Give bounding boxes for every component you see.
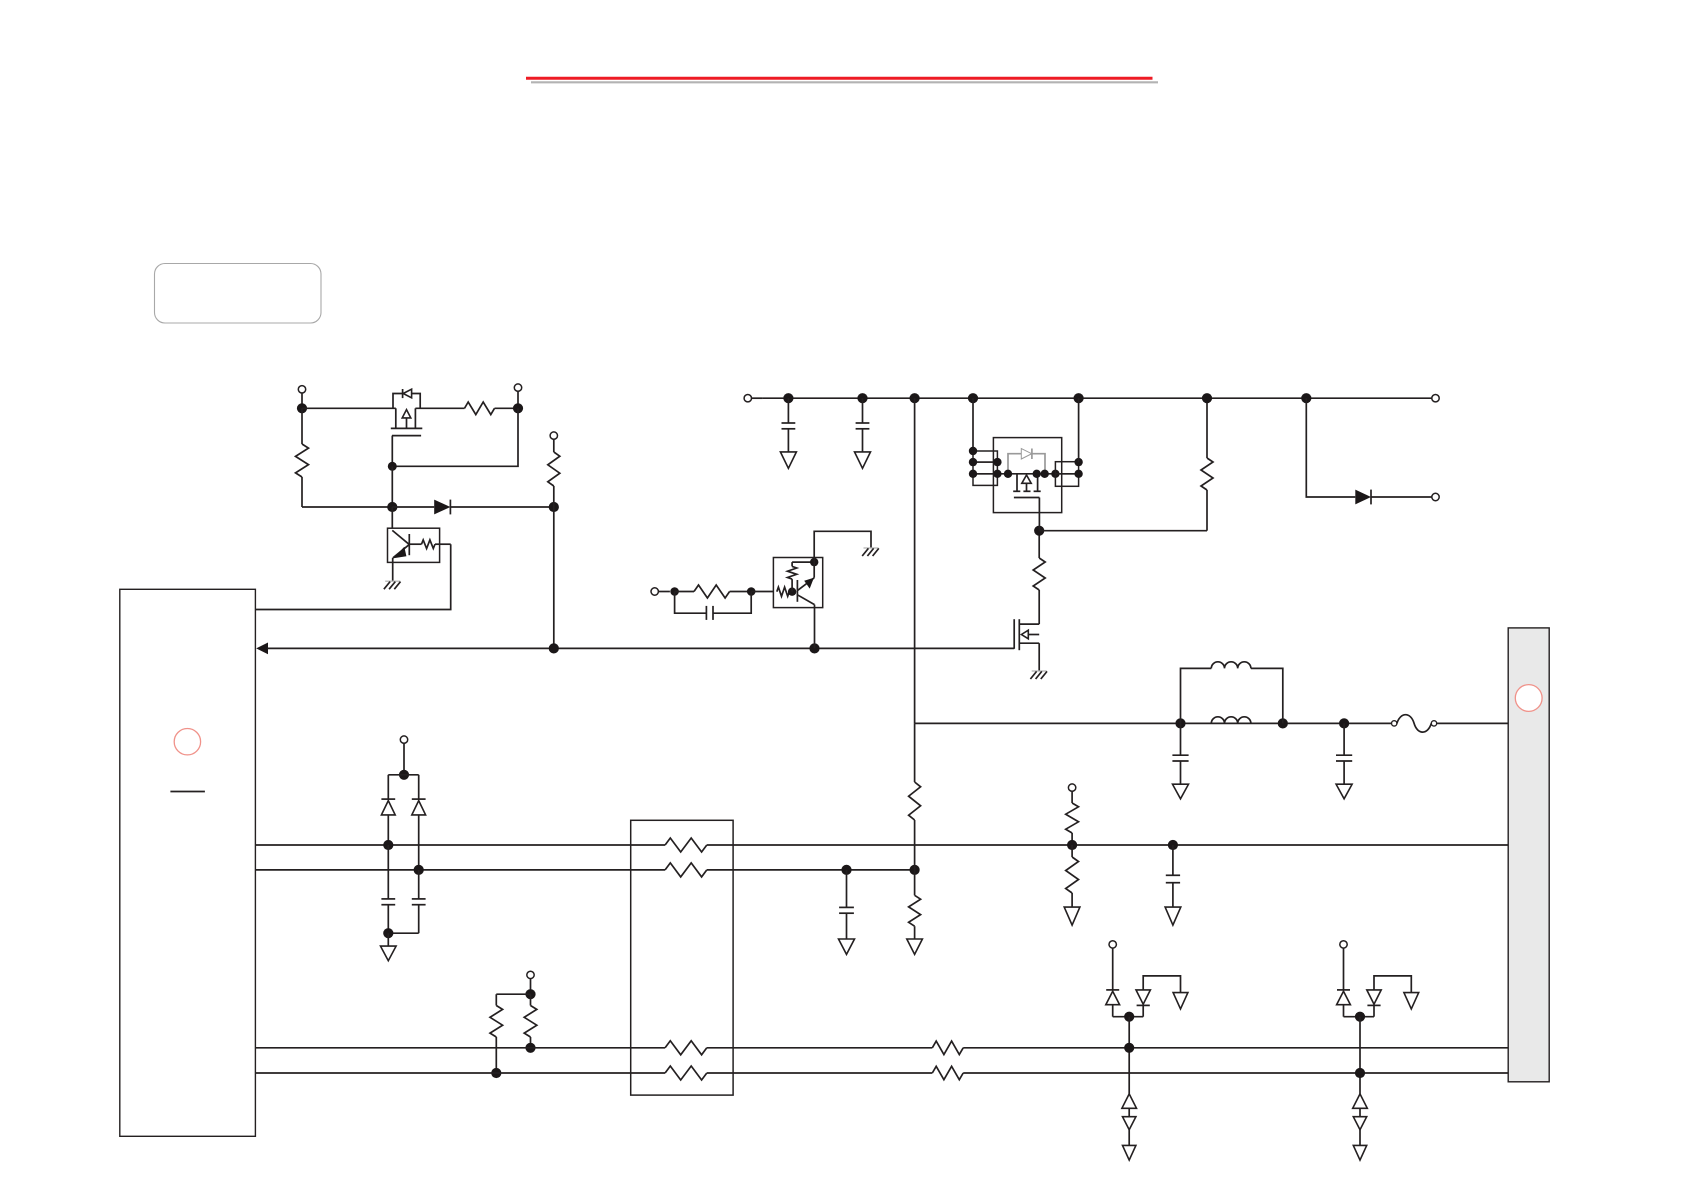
resistor R6 <box>914 723 916 782</box>
connector J1 body <box>120 589 256 1136</box>
U2 collector pin wire <box>814 531 871 578</box>
node R11 <box>491 1068 501 1078</box>
U2 pullup resistor <box>791 579 793 592</box>
TVS Z2 down triangle <box>1353 1117 1366 1130</box>
ground D-group <box>387 933 389 946</box>
U3 pin nodes right <box>1074 458 1082 466</box>
diode pair split <box>388 774 418 776</box>
U1 base wire to connector <box>255 544 450 609</box>
ground Z2 arrow <box>1353 1145 1366 1160</box>
pin Z2 <box>1340 941 1347 948</box>
resistor R3 <box>550 432 557 439</box>
capacitor C2 <box>862 398 864 423</box>
connector J2 body <box>1508 628 1549 1082</box>
node V3 <box>910 393 920 403</box>
connector J1 red circle <box>174 729 200 755</box>
U3 mosfet stubs <box>1016 474 1018 492</box>
ground G2 <box>864 547 879 549</box>
node P3b <box>747 587 756 596</box>
TVS Z1 up triangle <box>1122 1094 1137 1108</box>
wire node B down <box>553 507 555 648</box>
resistor R1 <box>415 407 464 409</box>
U3 pin box 2 <box>973 462 997 474</box>
U3 left pin wire <box>972 398 974 451</box>
terminal T2 <box>1432 493 1439 500</box>
bus S3 wire <box>255 1047 665 1049</box>
node C <box>1034 526 1044 536</box>
pin P1 <box>298 386 305 393</box>
U2 transistor bar <box>796 580 798 602</box>
connector J1 key line <box>170 791 205 793</box>
node FB-E <box>809 643 819 653</box>
resistor R10 <box>675 591 694 593</box>
optocoupler U1 box <box>388 528 440 562</box>
node W1 <box>1175 718 1185 728</box>
U3 center line <box>973 473 1079 475</box>
ground C3 <box>1173 784 1189 799</box>
U3 right pin wire <box>1078 398 1080 462</box>
ground Z1 arrow <box>1123 1145 1136 1160</box>
capacitor C5 <box>1172 845 1174 875</box>
node P3 <box>670 587 679 596</box>
node S1c <box>1168 840 1178 850</box>
U2 collector <box>798 578 815 591</box>
node V1 <box>783 393 793 403</box>
node S2b <box>841 865 851 875</box>
U2 collector node <box>810 558 818 566</box>
top bus wire <box>763 397 1432 399</box>
TVS Z2 link <box>1359 1108 1361 1116</box>
power bus wire <box>915 722 1392 724</box>
U3 body diode <box>1008 449 1045 474</box>
node Z2 <box>1355 1012 1365 1022</box>
resistor R2 <box>301 408 303 444</box>
TVS Z2 link 2 <box>1359 1130 1361 1146</box>
optocoupler U2 box <box>773 558 822 608</box>
U3 gate wire <box>1038 498 1040 531</box>
U3 pin box 5 <box>1055 474 1078 487</box>
transistor Q1 p-MOSFET <box>395 408 397 428</box>
U3 mosfet arrow <box>1022 475 1031 483</box>
capacitor C8 <box>846 870 848 908</box>
U3 channel bar <box>1013 490 1020 492</box>
title red underline <box>526 77 1153 80</box>
bus S1 wire <box>255 844 665 846</box>
ground C8 <box>839 939 855 954</box>
bus S2 wire <box>255 869 665 871</box>
Q1 gate wire <box>391 436 393 467</box>
ground Z2b <box>1404 993 1419 1009</box>
U1 emitter ground wire <box>392 558 394 581</box>
node P1 <box>297 403 307 413</box>
node V2 <box>857 393 867 403</box>
node V7 <box>1301 393 1311 403</box>
node V5 <box>1074 393 1084 403</box>
node R12 <box>525 1043 535 1053</box>
ground C5 <box>1165 907 1181 925</box>
pin P6 <box>527 971 534 978</box>
ground R9 <box>1064 907 1080 925</box>
wire to U2 <box>751 591 773 593</box>
bus S4 wire <box>255 1072 665 1074</box>
ground C2 <box>855 452 871 468</box>
ground G1 <box>385 580 400 582</box>
fuse F1 <box>1392 721 1397 726</box>
U1 base resistor <box>409 543 421 545</box>
node W3 <box>1339 718 1349 728</box>
node P2 <box>513 403 523 413</box>
resistor R8 with pin <box>1068 784 1075 791</box>
diode D3 <box>387 775 389 799</box>
diode D2 <box>1306 398 1355 497</box>
wire Z2 to bus <box>1359 1017 1361 1094</box>
filter box T1 <box>631 820 733 1095</box>
resistor R9 <box>1071 845 1073 857</box>
node FB-B <box>549 643 559 653</box>
node B <box>549 502 559 512</box>
diode D1 <box>392 506 434 508</box>
capacitor C3 <box>1180 723 1182 755</box>
capacitor C7 <box>418 870 420 899</box>
diode Z2b <box>1367 990 1381 1004</box>
capacitor C10 <box>675 592 707 614</box>
TVS Z1 link 2 <box>1128 1130 1130 1146</box>
Q3 source ground wire <box>1038 643 1040 670</box>
resistor R4 <box>1033 558 1045 590</box>
U3 body box <box>993 438 1061 513</box>
U1 emitter <box>393 545 409 558</box>
title underline shadow <box>531 81 1158 83</box>
node A <box>387 502 397 512</box>
U2 emitter <box>797 595 814 605</box>
U3 gate bar <box>1014 497 1040 499</box>
diode Z1b <box>1136 990 1150 1004</box>
wire P1 to Q1 <box>302 407 396 409</box>
resistor R5 <box>1206 490 1208 531</box>
U2 base node <box>788 588 796 596</box>
node Z1 <box>1124 1012 1134 1022</box>
pin P4 <box>744 395 751 402</box>
node V4 <box>968 393 978 403</box>
U3 inner nodes <box>1004 470 1012 478</box>
node W2 <box>1278 718 1288 728</box>
inductor L2 <box>1211 717 1251 724</box>
pin P3 <box>651 588 658 595</box>
U2 base resistor <box>777 587 790 596</box>
ground C4 <box>1336 784 1352 799</box>
ground G3 <box>1032 670 1047 672</box>
U3 pin box 3 <box>973 474 997 486</box>
node Z2 bus <box>1355 1068 1365 1078</box>
node S1a <box>383 840 393 850</box>
U1 transistor bar <box>408 534 410 555</box>
pin P2 <box>514 384 521 391</box>
diode Z2a <box>1337 989 1350 991</box>
capacitor C6 <box>387 845 389 899</box>
transistor Q3 n-MOSFET <box>1013 619 1015 649</box>
node P6 <box>525 989 535 999</box>
TVS Z1 link <box>1128 1108 1130 1116</box>
node S1b <box>1067 840 1077 850</box>
U3 pin box 1 <box>973 451 997 462</box>
TVS Z1 down triangle <box>1123 1117 1136 1130</box>
capacitor C1 <box>787 398 789 423</box>
wire gate junction down <box>391 466 393 507</box>
pin P5 <box>400 736 407 743</box>
terminal T1 <box>1432 395 1439 402</box>
pin Z1 <box>1109 941 1116 948</box>
resistor R11 <box>495 994 497 1005</box>
diode D4 <box>418 775 420 799</box>
node S3a <box>383 928 393 938</box>
node S2c <box>910 865 920 875</box>
wire FB arrow <box>256 643 268 655</box>
capacitor C4 <box>1343 723 1345 755</box>
node gate junction <box>388 462 397 471</box>
ground Z1b <box>1173 993 1188 1009</box>
resistor pair top wire <box>496 993 530 995</box>
node S2a <box>414 865 424 875</box>
resistor R12 <box>530 994 532 1005</box>
U3 pin box 4 <box>1055 462 1078 474</box>
node P5 <box>399 770 409 780</box>
wire P2 down-left <box>392 408 518 466</box>
U2 emitter pin wire <box>814 605 816 649</box>
ground C1 <box>780 452 796 468</box>
U1 collector wire <box>391 507 393 528</box>
connector J2 red circle <box>1515 685 1542 712</box>
Q1 body diode <box>393 394 402 409</box>
note box <box>155 264 322 324</box>
wire Z1 to bus <box>1128 1017 1130 1094</box>
ground R7 <box>907 939 923 954</box>
diode Z1a <box>1106 989 1119 991</box>
TVS Z2 up triangle <box>1353 1094 1368 1108</box>
Q3 drain wire <box>1038 590 1040 624</box>
wire node C right <box>1039 530 1207 532</box>
node Z1 bus <box>1124 1043 1134 1053</box>
U3 pin nodes left <box>969 447 977 455</box>
Q3 drain node wire <box>1038 531 1040 558</box>
inductor L1 <box>1181 668 1212 723</box>
resistor R7 <box>914 870 916 895</box>
node V6 <box>1202 393 1212 403</box>
main rail wire <box>914 398 916 723</box>
